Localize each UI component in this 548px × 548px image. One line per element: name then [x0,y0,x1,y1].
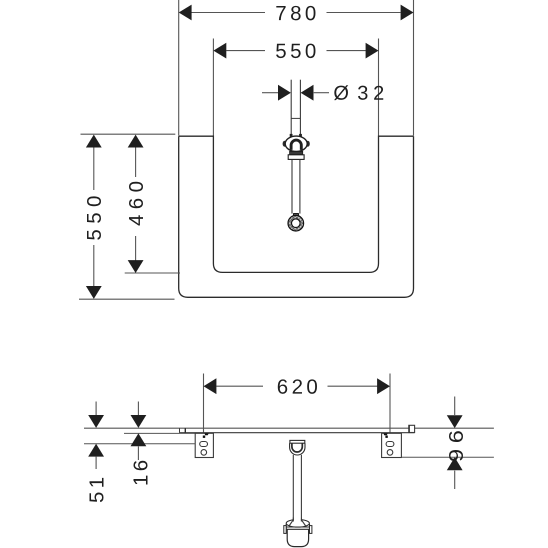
dimension line 620 [216,385,263,387]
left bracket clamp wedge [205,433,209,435]
svg-text:550: 550 [275,40,319,63]
left bracket clamp dot [203,436,205,438]
extension line 16 [124,432,195,434]
left mounting bracket [195,433,213,457]
chain connector [293,213,299,218]
arrow 550v bottom [86,286,102,299]
arrow 620 left [204,378,217,394]
dimension line 460 vertical [135,147,137,177]
trap stirrup horseshoe outer [290,443,305,455]
dimension 51 up stem [95,457,97,469]
chain ring [288,215,304,231]
arrow 51 up [88,444,104,457]
arrow d32 right [301,85,314,101]
left bracket round hole [201,450,207,456]
trap stirrup bar [290,440,305,443]
arrow d32 left [278,85,291,101]
arrow 96 up [447,457,463,470]
dimension line 780 [192,12,266,14]
leader line diameter 32 right [314,92,329,94]
cup collar band [286,526,309,528]
extension line 620 left [203,374,205,442]
svg-text:51: 51 [86,473,109,503]
drain fitting horseshoe [291,140,301,150]
extension line bottom 460 [125,272,180,274]
extension line 780 right [413,0,415,136]
arrow 460 top [128,135,144,148]
extension line top (left dims) [81,133,176,135]
leader line diameter 32 left [262,92,278,94]
extension line 550 left [212,39,214,136]
arrow 460 bottom [128,260,144,273]
dimension line 550 vertical [93,147,95,190]
right bracket clamp wedge [384,433,388,435]
slab top line with extensions [84,427,494,429]
extension line 550 right [378,39,380,136]
arrow 51 down [88,415,104,428]
slab bottom line [179,432,414,434]
svg-text:780: 780 [275,2,319,25]
svg-text:460: 460 [125,176,148,226]
arrow 16 up [131,433,147,446]
pipe collar joint line [291,117,300,119]
dimension 96 up stem [454,471,456,489]
left bracket oval hole [200,442,208,447]
extension line 780 left [178,0,180,136]
right bracket oval hole [386,442,394,447]
pipe end nubs [290,134,293,137]
cup rim ellipse [286,520,309,528]
trap stirrup horseshoe inner [292,443,302,452]
arrow 550v top [86,135,102,148]
drain pipe upper (top view) [290,80,292,136]
right bracket round hole [387,450,393,456]
arrow 550 right [366,43,379,59]
dimension 16 down stem [137,402,139,416]
arrow 620 right [377,378,390,394]
svg-text:550: 550 [83,190,106,240]
arrow 16 down [131,415,147,428]
extension line 96 bottom [401,456,494,458]
dimension line 550 [226,50,265,52]
basin outline (top view, U shape) [179,136,414,272]
arrow 780 right [401,5,414,21]
svg-text:16: 16 [129,456,152,486]
dimension 16 up stem [137,446,139,460]
cup right tab [310,526,312,534]
pipe flare into cup [289,520,293,526]
slab left end dividers [179,428,181,433]
drain fitting side tabs [283,141,287,147]
slab right end raised tab [409,425,415,432]
cup body [287,529,308,546]
svg-text:32: 32 [357,83,389,105]
drain pipe lower (top view) [291,160,293,214]
cup left tab [284,526,286,534]
trap vertical pipe [292,455,294,520]
dimension 96 down stem [454,397,456,416]
arrow 780 left [179,5,192,21]
drain fitting body (ellipse) [285,136,307,151]
right mounting bracket [382,433,402,457]
extension line 51 (hole axis) [84,443,195,445]
drain fitting dark band [290,151,303,154]
arrow 550 left [213,43,226,59]
right bracket clamp dot [385,436,387,438]
arrow 96 down [447,415,463,428]
dimension 51 down stem [95,402,97,416]
pipe over rim mask [294,518,301,525]
extension line 620 right [389,374,391,442]
svg-text:620: 620 [277,376,321,399]
drain fitting white band [288,155,304,160]
svg-text:Ø: Ø [333,83,349,105]
svg-text:96: 96 [444,424,467,462]
extension line bottom 550 [79,298,175,300]
